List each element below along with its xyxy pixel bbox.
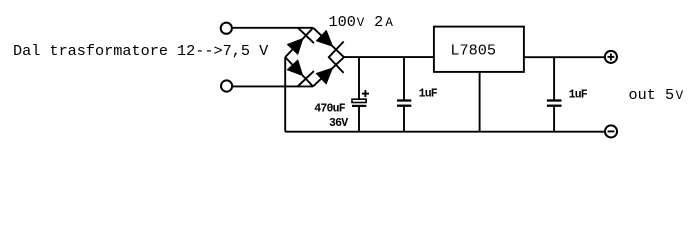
wire: regulator output to plus terminal (524, 56, 605, 58)
value label 1uF (C2) (419, 88, 438, 101)
label: out 5V (629, 86, 684, 104)
svg-text:470uF: 470uF (314, 102, 345, 115)
bridge rectifier B1 (285, 28, 344, 87)
wire: C1 top lead (358, 57, 360, 99)
wire: C2 bottom lead (403, 107, 405, 132)
diode D2 top-right (313, 28, 344, 58)
C3 bottom plate (547, 105, 562, 107)
value label 470uF (314, 102, 345, 115)
svg-text:L7805: L7805 (450, 41, 496, 59)
C1 top plate (hollow rectangle) (352, 99, 366, 102)
C2 bottom plate (397, 105, 411, 107)
diode D3 bottom-left (285, 57, 314, 86)
wire: C2 top lead (403, 57, 405, 99)
wire: bridge left vertex (DC-) down to ground rail (284, 57, 286, 132)
capacitor C3 1uF (547, 57, 562, 132)
ground rail wire (285, 131, 605, 133)
output terminal plus (605, 51, 617, 63)
svg-text:out 5V: out 5V (629, 86, 684, 104)
C3 top plate (547, 99, 562, 101)
wire: regulator ground pin (479, 72, 481, 132)
capacitor C2 1uF (397, 57, 411, 132)
C2 top plate (397, 99, 411, 101)
value label 100V 2A (329, 13, 394, 31)
svg-text:1uF: 1uF (569, 89, 588, 102)
diode D1 top-left (285, 28, 314, 57)
svg-text:1uF: 1uF (419, 88, 438, 101)
wire: C3 top lead (553, 57, 555, 99)
wire: bottom input to bridge bottom vertex (crosses DC- branch) (232, 85, 313, 87)
diode D4 bottom-right (313, 57, 344, 87)
wire: C1 bottom lead (358, 107, 360, 132)
C1 plus sign (362, 90, 369, 97)
wire: bridge right vertex (DC+) to regulator input (344, 56, 434, 58)
input terminal bottom (221, 80, 232, 91)
wire: C3 bottom lead (553, 107, 555, 132)
value label 1uF (C3) (569, 89, 588, 102)
output terminal minus (605, 125, 617, 137)
capacitor C1 470uF 36V electrolytic (352, 57, 369, 132)
C1 bottom plate (352, 105, 366, 107)
input terminal top (221, 23, 232, 34)
svg-text:36V: 36V (329, 117, 348, 130)
regulator U1 L7805 (434, 27, 524, 72)
svg-text:100V 2A: 100V 2A (329, 13, 394, 31)
label: Dal trasformatore 12 to 7,5 V (13, 42, 269, 60)
value label 36V (329, 117, 348, 130)
wire: top input to bridge top vertex (232, 27, 314, 29)
svg-text:Dal trasformatore 12-->7,5 V: Dal trasformatore 12-->7,5 V (13, 42, 269, 60)
